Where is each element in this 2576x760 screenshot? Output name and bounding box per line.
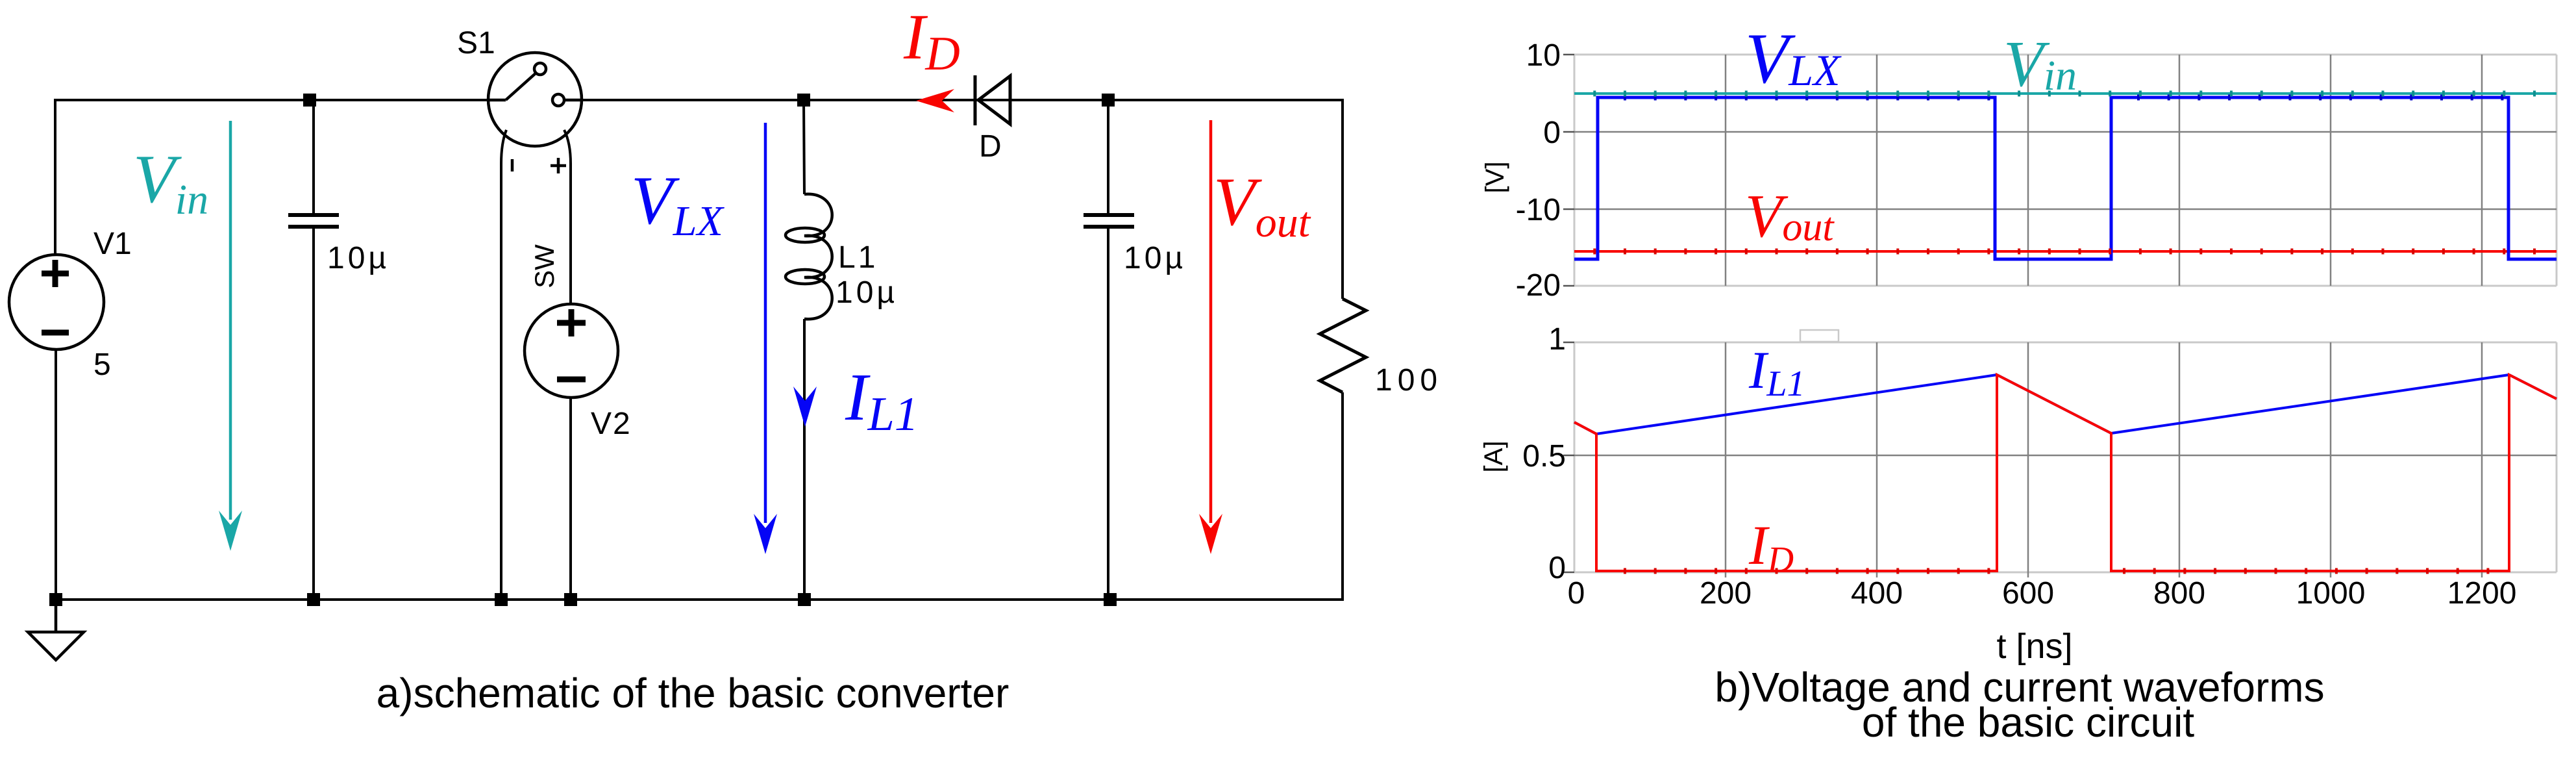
svg-text:-10: -10 bbox=[1516, 193, 1561, 227]
node bottom C2 bbox=[1104, 593, 1117, 606]
svg-text:1000: 1000 bbox=[2296, 576, 2366, 611]
node bottom V1 bbox=[49, 593, 62, 606]
svg-text:of the basic circuit: of the basic circuit bbox=[1862, 699, 2194, 746]
svg-text:ID: ID bbox=[903, 1, 960, 81]
voltage source V1 bbox=[9, 255, 104, 349]
svg-text:Vin: Vin bbox=[2003, 27, 2077, 100]
node top C1 bbox=[303, 94, 316, 107]
bottom plot x tick labels bbox=[1568, 576, 2517, 611]
svg-text:1200: 1200 bbox=[2447, 576, 2517, 611]
voltage source V2 bbox=[525, 304, 618, 398]
svg-text:VLX: VLX bbox=[1745, 19, 1842, 98]
svg-text:SW: SW bbox=[529, 244, 560, 288]
svg-text:600: 600 bbox=[2002, 576, 2054, 611]
top plot grid bbox=[1574, 55, 2557, 286]
legend empty box bbox=[1800, 330, 1839, 342]
ground bbox=[28, 600, 84, 660]
wire inductor leads bbox=[804, 100, 804, 600]
node bottom C1 bbox=[307, 593, 320, 606]
node bottom SW bbox=[495, 593, 508, 606]
svg-text:10: 10 bbox=[1526, 38, 1561, 73]
bottom plot y ticks bbox=[1563, 342, 1574, 572]
svg-text:5: 5 bbox=[93, 348, 111, 382]
arrow I_L1 blue head bbox=[793, 386, 817, 427]
svg-text:L1: L1 bbox=[838, 240, 878, 275]
inductor L1 bbox=[786, 194, 832, 319]
svg-text:10µ: 10µ bbox=[836, 275, 898, 310]
svg-text:Vin: Vin bbox=[133, 141, 208, 223]
svg-text:800: 800 bbox=[2153, 576, 2205, 611]
trace I_D red bbox=[1574, 375, 2557, 571]
svg-text:400: 400 bbox=[1851, 576, 1903, 611]
svg-text:10µ: 10µ bbox=[1124, 241, 1186, 275]
bottom plot y tick labels bbox=[1522, 322, 1566, 585]
wire switch left lead down bbox=[501, 130, 506, 600]
node bottom V2 bbox=[564, 593, 577, 606]
svg-text:IL1: IL1 bbox=[845, 360, 919, 441]
trace Vin teal bbox=[1574, 92, 2557, 95]
svg-text:ID: ID bbox=[1748, 514, 1794, 580]
switch minus terminal mark bbox=[511, 159, 514, 171]
trace Vin markers bbox=[1574, 91, 2557, 97]
svg-text:[A]: [A] bbox=[1480, 441, 1508, 473]
switch plus terminal mark bbox=[551, 158, 566, 173]
arrow V_LX blue bbox=[754, 123, 777, 554]
wire capacitor C1 leads bbox=[312, 100, 315, 600]
node top C2 bbox=[1102, 94, 1115, 107]
svg-text:10µ: 10µ bbox=[327, 241, 390, 275]
svg-text:Vout: Vout bbox=[1745, 183, 1835, 250]
wire switch right lead to V2 bbox=[564, 130, 571, 304]
svg-text:a)schematic of the basic conve: a)schematic of the basic converter bbox=[377, 670, 1009, 716]
arrow V_out red bbox=[1199, 120, 1222, 554]
svg-text:200: 200 bbox=[1700, 576, 1752, 611]
wire bottom rail bbox=[56, 349, 1343, 600]
svg-text:D: D bbox=[979, 129, 1002, 164]
svg-text:V1: V1 bbox=[93, 227, 132, 261]
wire top rail mid+right: switch to resistor corner bbox=[582, 100, 1343, 299]
arrow V_in teal bbox=[219, 121, 242, 551]
svg-text:VLX: VLX bbox=[631, 162, 724, 245]
svg-text:0: 0 bbox=[1543, 116, 1561, 150]
trace VLX blue bbox=[1574, 97, 2557, 259]
trace Vout red bbox=[1574, 250, 2557, 253]
node bottom L1 bbox=[798, 593, 811, 606]
svg-text:0: 0 bbox=[1548, 551, 1566, 585]
svg-text:S1: S1 bbox=[457, 26, 495, 60]
capacitor C1 plates bbox=[288, 215, 339, 227]
svg-text:Vout: Vout bbox=[1213, 164, 1311, 246]
diode D bbox=[975, 75, 1010, 125]
bottom plot grid bbox=[1574, 342, 2557, 572]
trace I_L1 blue bbox=[1574, 375, 2557, 434]
node top L1 bbox=[797, 94, 810, 107]
switch S1 bbox=[488, 53, 582, 146]
top plot y ticks bbox=[1563, 55, 1574, 286]
top plot y tick labels bbox=[1516, 38, 1561, 303]
svg-text:-20: -20 bbox=[1516, 268, 1561, 303]
wire top rail left: V1 to switch bbox=[55, 100, 488, 255]
svg-text:[V]: [V] bbox=[1481, 162, 1509, 194]
svg-text:t [ns]: t [ns] bbox=[1996, 627, 2072, 666]
resistor R 100 bbox=[1320, 299, 1366, 392]
trace Vout markers bbox=[1574, 249, 2557, 255]
svg-text:IL1: IL1 bbox=[1748, 340, 1805, 404]
trace VLX markers bbox=[1598, 95, 2508, 101]
wire V2 bottom lead bbox=[569, 398, 572, 600]
svg-text:1: 1 bbox=[1548, 322, 1566, 357]
arrow I_D red bbox=[916, 89, 954, 112]
wire capacitor C2 leads bbox=[1107, 100, 1109, 600]
svg-text:0.5: 0.5 bbox=[1522, 439, 1566, 474]
svg-text:100: 100 bbox=[1375, 363, 1443, 398]
svg-text:V2: V2 bbox=[591, 407, 632, 441]
capacitor C2 plates bbox=[1084, 215, 1134, 227]
trace I_D markers bbox=[1598, 568, 1997, 574]
svg-text:0: 0 bbox=[1568, 576, 1585, 611]
